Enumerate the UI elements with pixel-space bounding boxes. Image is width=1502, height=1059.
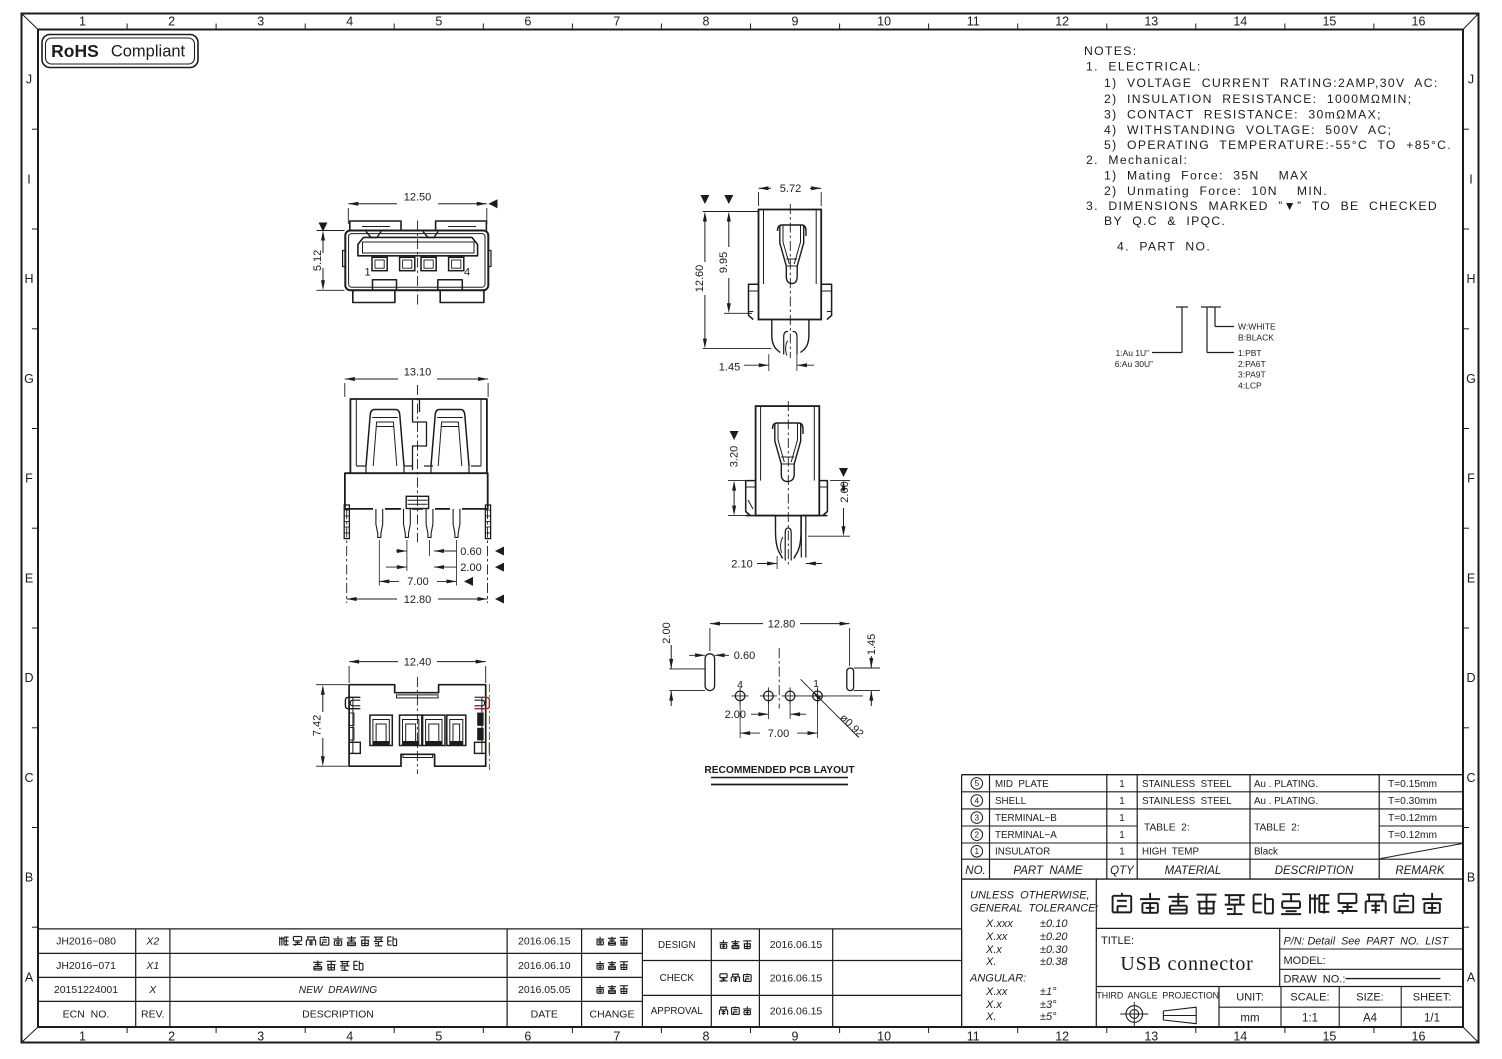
svg-text:DESCRIPTION: DESCRIPTION <box>1275 865 1354 877</box>
svg-text:P/N: Detail See PART NO. L: P/N: Detail See PART NO. LIST <box>1284 935 1450 947</box>
bottom view right lower tab <box>475 742 486 753</box>
bottom view left side wall details <box>352 697 354 753</box>
svg-text:X.xx: X.xx <box>985 986 1008 998</box>
svg-text:USB connector: USB connector <box>1120 953 1253 975</box>
svg-text:2.00: 2.00 <box>725 709 746 721</box>
hole diameter leader 0.92 <box>801 679 859 737</box>
svg-text:C: C <box>24 771 33 785</box>
svg-text:F: F <box>25 472 33 486</box>
svg-text:±1°: ±1° <box>1040 986 1057 998</box>
shell top spring dimples <box>366 232 381 238</box>
svg-text:4) WITHSTANDING VOLTAGE: 50: 4) WITHSTANDING VOLTAGE: 500V AC; <box>1104 123 1392 137</box>
projection symbol target circle <box>1126 1006 1143 1023</box>
front view top mounting tabs <box>350 221 401 231</box>
latch feet joints <box>365 466 367 473</box>
checked marker for 3.20 <box>730 431 739 440</box>
svg-text:2.00: 2.00 <box>661 622 673 643</box>
svg-text:1: 1 <box>79 1029 86 1043</box>
svg-text:12.60: 12.60 <box>694 265 706 293</box>
svg-text:2016.06.15: 2016.06.15 <box>518 936 571 948</box>
svg-text:REMARK: REMARK <box>1395 865 1446 877</box>
checked marker 7.00 <box>464 577 473 586</box>
front view dimension 12.50 <box>348 203 397 205</box>
svg-text:16: 16 <box>1412 14 1426 28</box>
svg-text:±0.10: ±0.10 <box>1040 918 1068 930</box>
title block grid <box>961 879 963 1027</box>
svg-text:A: A <box>1467 970 1476 984</box>
svg-text:X.x: X.x <box>985 999 1002 1011</box>
lower side view right leg <box>800 516 802 558</box>
svg-text:Au . PLATING.: Au . PLATING. <box>1254 779 1318 790</box>
svg-text:DESIGN: DESIGN <box>658 940 696 951</box>
svg-text:I: I <box>27 172 30 186</box>
svg-text:1: 1 <box>1119 830 1124 841</box>
lower side view base edge <box>746 515 776 517</box>
svg-text:1: 1 <box>1119 847 1124 858</box>
svg-text:16: 16 <box>1412 1029 1426 1043</box>
svg-text:7: 7 <box>613 1029 620 1043</box>
svg-text:X2: X2 <box>145 936 159 948</box>
svg-text:Compliant: Compliant <box>111 43 186 61</box>
rear shell center interlock seam <box>413 399 427 470</box>
svg-text:SHELL: SHELL <box>995 796 1027 807</box>
side view shell body <box>759 210 822 320</box>
side view solder pin fork <box>772 320 780 353</box>
side view left mounting tab <box>749 284 759 319</box>
svg-text:I: I <box>1469 172 1472 186</box>
svg-text:5) OPERATING TEMPERATURE:-55: 5) OPERATING TEMPERATURE:-55°C TO +85°C. <box>1104 138 1452 152</box>
front view tongue <box>358 237 478 255</box>
projection symbol cone view <box>1163 1007 1196 1024</box>
svg-text:B: B <box>25 871 33 885</box>
svg-text:TABLE 2:: TABLE 2: <box>1144 822 1190 833</box>
svg-text:SCALE:: SCALE: <box>1290 992 1329 1004</box>
checked-dimension marker for 5.12 <box>319 223 328 232</box>
svg-text:1:Au 1U”: 1:Au 1U” <box>1115 348 1149 358</box>
svg-text:0.60: 0.60 <box>734 650 755 662</box>
bottom view right side wall details <box>481 697 483 753</box>
revision table grid <box>38 928 643 930</box>
svg-text:QTY: QTY <box>1110 865 1135 877</box>
svg-text:NO.: NO. <box>965 865 985 877</box>
svg-text:8: 8 <box>703 1029 710 1043</box>
svg-text:12: 12 <box>1055 14 1069 28</box>
svg-text:13.10: 13.10 <box>404 366 432 378</box>
board lock centerlines <box>346 509 348 603</box>
remark cell diagonal slash <box>1380 844 1462 859</box>
side view centerline <box>789 204 791 358</box>
checked marker 2.00 <box>495 563 504 572</box>
svg-text:3) CONTACT RESISTANCE: 30mΩ: 3) CONTACT RESISTANCE: 30mΩMAX; <box>1104 108 1382 122</box>
rear view base block <box>345 473 488 509</box>
svg-text:Black: Black <box>1254 847 1278 858</box>
svg-text:B: B <box>1467 871 1475 885</box>
bottom view top seam strip <box>397 695 439 698</box>
svg-text:J: J <box>1468 73 1474 87</box>
svg-text:T=0.15mm: T=0.15mm <box>1388 779 1437 790</box>
parts list table grid <box>962 774 1463 776</box>
svg-text:3: 3 <box>257 1029 264 1043</box>
lower side view left mounting tab <box>746 481 756 516</box>
svg-text:6: 6 <box>524 14 531 28</box>
svg-text:1: 1 <box>975 847 980 856</box>
svg-text:DRAW NO.:: DRAW NO.: <box>1284 973 1346 985</box>
rear view shell body <box>350 399 487 473</box>
svg-text:1: 1 <box>1119 813 1124 824</box>
svg-text:12.80: 12.80 <box>768 618 796 630</box>
svg-text:UNIT:: UNIT: <box>1236 992 1264 1004</box>
svg-text:UNLESS OTHERWISE,: UNLESS OTHERWISE, <box>970 889 1090 901</box>
svg-text:2.10: 2.10 <box>731 558 752 570</box>
svg-text:13: 13 <box>1144 14 1158 28</box>
svg-text:1: 1 <box>79 14 86 28</box>
svg-text:3: 3 <box>257 14 264 28</box>
approval table grid <box>642 928 961 930</box>
svg-text:NOTES:: NOTES: <box>1084 44 1137 58</box>
svg-text:REV.: REV. <box>141 1008 165 1020</box>
svg-text:±0.20: ±0.20 <box>1040 931 1068 943</box>
svg-text:9.95: 9.95 <box>718 252 730 273</box>
lower side view shell body <box>756 406 820 515</box>
rear view centerline <box>417 385 419 542</box>
svg-text:GENERAL TOLERANCE:: GENERAL TOLERANCE: <box>970 902 1099 914</box>
side view dimension 9.95 <box>724 312 752 314</box>
svg-text:11: 11 <box>967 1029 980 1043</box>
rear view terminal pins <box>376 509 383 538</box>
svg-text:Au . PLATING.: Au . PLATING. <box>1254 796 1318 807</box>
rear view solder crimp grille <box>406 496 428 508</box>
svg-text:ECN NO.: ECN NO. <box>63 1008 110 1020</box>
svg-text:MODEL:: MODEL: <box>1284 955 1326 967</box>
svg-text:RECOMMENDED PCB LAYOUT: RECOMMENDED PCB LAYOUT <box>704 765 855 776</box>
svg-text:3. DIMENSIONS MARKED ”▼” T: 3. DIMENSIONS MARKED ”▼” TO BE CHECKED <box>1086 199 1438 213</box>
revision change names <box>599 937 601 940</box>
company name Zhejiang Hongsui Precision Electronics Co Ltd <box>1113 895 1132 897</box>
svg-text:H: H <box>24 272 33 286</box>
svg-text:D: D <box>1466 671 1475 685</box>
dimension 0.60 <box>396 550 407 552</box>
svg-text:CHANGE: CHANGE <box>590 1008 635 1020</box>
svg-text:5.12: 5.12 <box>312 250 324 271</box>
svg-text:0.60: 0.60 <box>460 546 481 558</box>
svg-text:7.00: 7.00 <box>407 576 428 588</box>
svg-text:15: 15 <box>1322 1029 1336 1043</box>
front view shell outline <box>345 231 488 291</box>
svg-text:X.: X. <box>985 1011 996 1023</box>
svg-text:JH2016−080: JH2016−080 <box>56 936 116 948</box>
svg-text:H: H <box>1466 272 1475 286</box>
front view vertical centerline <box>417 221 419 307</box>
svg-text:±0.30: ±0.30 <box>1040 944 1068 956</box>
checked marker 0.60 <box>495 547 504 556</box>
svg-text:5.72: 5.72 <box>780 183 801 195</box>
pcb layout right slot <box>847 668 854 691</box>
svg-text:4: 4 <box>346 14 353 28</box>
checked-dimension marker for 12.50 <box>489 199 498 208</box>
svg-text:2: 2 <box>975 831 980 840</box>
svg-text:TERMINAL−A: TERMINAL−A <box>995 830 1057 841</box>
svg-text:1.45: 1.45 <box>866 634 878 655</box>
svg-text:G: G <box>1466 372 1476 386</box>
svg-text:2016.06.15: 2016.06.15 <box>770 939 823 951</box>
bottom view right red centerline <box>488 684 490 770</box>
part number decoder diagram <box>1176 306 1188 308</box>
svg-text:8: 8 <box>703 14 710 28</box>
rear view dimension 13.10 <box>345 378 398 380</box>
svg-text:X: X <box>148 984 157 996</box>
rear view left latch spring <box>366 410 404 467</box>
RoHS Compliant badge <box>42 35 198 68</box>
svg-text:12.40: 12.40 <box>404 656 432 668</box>
svg-text:APPROVAL: APPROVAL <box>651 1006 704 1017</box>
lower side view centerline <box>787 401 789 566</box>
svg-text:±5°: ±5° <box>1040 1011 1057 1023</box>
svg-text:7: 7 <box>613 14 620 28</box>
svg-text:3.20: 3.20 <box>728 446 740 467</box>
pcb layout dimension 7.00 <box>740 732 760 734</box>
svg-text:4:LCP: 4:LCP <box>1238 380 1262 390</box>
svg-text:F: F <box>1467 472 1475 486</box>
svg-text:±3°: ±3° <box>1040 999 1057 1011</box>
svg-text:10: 10 <box>877 14 891 28</box>
svg-text:11: 11 <box>967 14 980 28</box>
svg-text:5: 5 <box>975 779 980 788</box>
svg-text:15: 15 <box>1322 14 1336 28</box>
svg-text:TERMINAL−B: TERMINAL−B <box>995 813 1057 824</box>
svg-text:7.42: 7.42 <box>312 715 324 736</box>
svg-text:DATE: DATE <box>531 1008 558 1020</box>
svg-text:3:PA9T: 3:PA9T <box>1238 369 1266 379</box>
svg-text:2.00: 2.00 <box>460 562 481 574</box>
front view dimension 5.12 <box>317 230 345 232</box>
svg-text:MATERIAL: MATERIAL <box>1165 865 1222 877</box>
svg-text:1.45: 1.45 <box>719 361 740 373</box>
svg-text:X.: X. <box>985 956 996 968</box>
bottom view centerline <box>416 677 418 774</box>
pcb layout centerline <box>778 648 780 709</box>
side view dimension 12.60 <box>703 211 759 213</box>
lower side view solder pin fork <box>776 516 783 559</box>
svg-text:SHEET:: SHEET: <box>1413 992 1452 1004</box>
svg-text:1) VOLTAGE CURRENT RATING:2: 1) VOLTAGE CURRENT RATING:2AMP,30V AC: <box>1104 76 1439 90</box>
pcb layout dimension 12.80 <box>710 623 763 625</box>
svg-text:1: 1 <box>813 678 819 690</box>
front view bottom inner latch windows <box>373 280 397 291</box>
svg-text:3: 3 <box>975 813 980 822</box>
svg-text:2016.06.15: 2016.06.15 <box>770 1005 823 1017</box>
svg-text:4: 4 <box>737 679 743 691</box>
bottom view dimension 12.40 <box>349 661 398 663</box>
svg-text:2:PA6T: 2:PA6T <box>1238 359 1266 369</box>
svg-text:2) Unmating Force: 10N M: 2) Unmating Force: 10N MIN. <box>1104 184 1328 198</box>
svg-text:A: A <box>25 970 34 984</box>
svg-text:2: 2 <box>168 14 175 28</box>
svg-text:4: 4 <box>346 1029 353 1043</box>
pcb layout left slot <box>705 654 715 691</box>
dimension 2.00 <box>386 566 407 568</box>
svg-text:A4: A4 <box>1363 1013 1378 1025</box>
svg-text:1) Mating Force: 35N MAX: 1) Mating Force: 35N MAX <box>1104 168 1309 182</box>
svg-text:1. ELECTRICAL:: 1. ELECTRICAL: <box>1086 60 1202 74</box>
svg-text:SIZE:: SIZE: <box>1356 992 1384 1004</box>
bottom view left lower tab <box>349 742 360 753</box>
svg-text:5: 5 <box>435 1029 442 1043</box>
svg-text:X.xxx: X.xxx <box>985 918 1013 930</box>
svg-text:STAINLESS STEEL: STAINLESS STEEL <box>1142 779 1232 790</box>
svg-text:10: 10 <box>877 1029 891 1043</box>
svg-text:TITLE:: TITLE: <box>1101 935 1134 947</box>
svg-text:±0.38: ±0.38 <box>1040 956 1068 968</box>
svg-text:2.60: 2.60 <box>839 481 851 502</box>
front view side retention bumps <box>343 251 346 267</box>
svg-text:X.xx: X.xx <box>985 931 1008 943</box>
svg-text:X.x: X.x <box>985 944 1002 956</box>
svg-text:4: 4 <box>464 266 470 278</box>
side view dimension 1.45 <box>768 354 770 371</box>
bottom view dimension 7.42 <box>316 684 348 686</box>
side view right mounting tab <box>821 284 831 319</box>
svg-text:1: 1 <box>364 266 370 278</box>
svg-text:1:1: 1:1 <box>1302 1013 1318 1025</box>
svg-text:ANGULAR:: ANGULAR: <box>969 973 1026 985</box>
svg-text:HIGH TEMP: HIGH TEMP <box>1142 847 1199 858</box>
front view contacts 1-4 <box>372 257 387 270</box>
rear view board lock legs <box>344 505 349 539</box>
bottom view right clip tab (red) <box>475 697 490 708</box>
lower side view right mounting tab <box>819 481 827 516</box>
pcb layout right slot extension lines <box>854 667 880 669</box>
bottom view bottom seam strip <box>403 754 433 757</box>
svg-text:RoHS: RoHS <box>51 41 99 61</box>
svg-text:STAINLESS STEEL: STAINLESS STEEL <box>1142 796 1232 807</box>
svg-text:4: 4 <box>975 796 980 805</box>
rear view right latch spring <box>431 410 469 467</box>
svg-text:mm: mm <box>1240 1013 1259 1025</box>
svg-text:C: C <box>1466 771 1475 785</box>
side view contact spring (tulip) <box>778 225 807 236</box>
pcb layout left slot extension lines <box>669 668 705 670</box>
svg-text:TABLE 2:: TABLE 2: <box>1254 822 1300 833</box>
svg-text:6: 6 <box>524 1029 531 1043</box>
svg-text:X1: X1 <box>145 960 159 972</box>
revision descriptions <box>279 937 281 946</box>
svg-text:14: 14 <box>1233 14 1247 28</box>
svg-text:INSULATOR: INSULATOR <box>995 847 1050 858</box>
pin extension lines <box>406 540 408 571</box>
svg-text:4. PART NO.: 4. PART NO. <box>1117 240 1211 254</box>
svg-text:12.50: 12.50 <box>404 191 432 203</box>
svg-text:T=0.12mm: T=0.12mm <box>1388 813 1437 824</box>
svg-text:D: D <box>24 671 33 685</box>
bottom view contact windows <box>370 715 392 745</box>
svg-text:2: 2 <box>168 1029 175 1043</box>
svg-text:G: G <box>24 372 34 386</box>
svg-text:12: 12 <box>1055 1029 1069 1043</box>
svg-text:T=0.30mm: T=0.30mm <box>1388 796 1437 807</box>
checked marker 12.80 <box>495 595 504 604</box>
svg-text:2016.06.10: 2016.06.10 <box>518 960 571 972</box>
svg-text:NEW DRAWING: NEW DRAWING <box>299 985 378 996</box>
svg-text:2) INSULATION RESISTANCE: 1: 2) INSULATION RESISTANCE: 1000MΩMIN; <box>1104 92 1413 106</box>
bottom view left clip tab <box>345 697 360 708</box>
parts list circled item numbers <box>971 778 983 790</box>
svg-text:1:PBT: 1:PBT <box>1238 348 1262 358</box>
lower side view contact spring (tulip) <box>773 423 804 434</box>
approval names <box>723 940 725 943</box>
svg-text:5: 5 <box>435 14 442 28</box>
side view dimension 5.72 <box>759 187 772 189</box>
svg-text:9: 9 <box>792 14 799 28</box>
svg-text:1: 1 <box>1119 796 1124 807</box>
front view bottom mounting tabs <box>353 290 395 302</box>
svg-text:14: 14 <box>1233 1029 1247 1043</box>
svg-text:THIRD ANGLE PROJECTION: THIRD ANGLE PROJECTION <box>1096 990 1219 1000</box>
svg-text:BY Q.C & IPQC.: BY Q.C & IPQC. <box>1104 214 1226 228</box>
svg-text:2016.06.15: 2016.06.15 <box>770 972 823 984</box>
svg-text:MID PLATE: MID PLATE <box>995 779 1049 790</box>
svg-text:E: E <box>25 571 33 585</box>
svg-text:2. Mechanical:: 2. Mechanical: <box>1086 153 1188 167</box>
svg-text:7.00: 7.00 <box>768 728 789 740</box>
svg-text:CHECK: CHECK <box>660 973 695 984</box>
svg-text:E: E <box>1467 571 1475 585</box>
svg-text:2016.05.05: 2016.05.05 <box>518 984 571 996</box>
svg-text:DESCRIPTION: DESCRIPTION <box>302 1008 374 1020</box>
bottom view body outline <box>349 685 486 767</box>
pcb layout dimension 0.60 <box>689 654 705 656</box>
svg-text:1: 1 <box>1119 779 1124 790</box>
svg-text:20151224001: 20151224001 <box>54 984 118 996</box>
pcb layout hole row line <box>798 695 863 697</box>
svg-text:B:BLACK: B:BLACK <box>1238 332 1274 342</box>
svg-text:9: 9 <box>792 1029 799 1043</box>
pcb layout drill holes <box>813 691 823 701</box>
svg-text:1/1: 1/1 <box>1424 1013 1440 1025</box>
svg-text:J: J <box>26 73 32 87</box>
checked marker for 2.60 <box>839 468 848 477</box>
svg-text:12.80: 12.80 <box>404 594 432 606</box>
dimension 12.80 <box>347 598 397 600</box>
svg-text:13: 13 <box>1144 1029 1158 1043</box>
svg-text:T=0.12mm: T=0.12mm <box>1388 830 1437 841</box>
svg-text:6:Au 30U”: 6:Au 30U” <box>1115 359 1153 369</box>
side view fork tip baseline <box>703 348 772 350</box>
svg-text:PART NAME: PART NAME <box>1013 865 1083 877</box>
checked markers for 12.60 and 9.95 <box>700 195 709 204</box>
dimension 7.00 <box>379 580 399 582</box>
svg-text:W:WHITE: W:WHITE <box>1238 321 1276 331</box>
svg-text:JH2016−071: JH2016−071 <box>56 960 116 972</box>
